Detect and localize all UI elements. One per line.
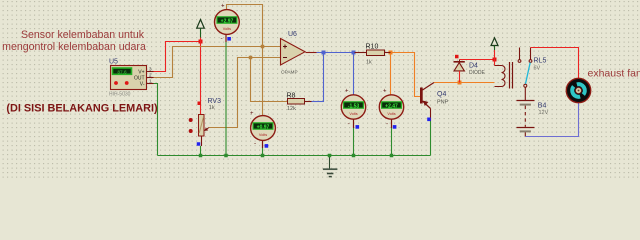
svg-text:U5: U5 <box>109 59 118 66</box>
svg-text:12k: 12k <box>287 106 296 112</box>
ground symbol <box>323 154 338 177</box>
relay RL5 arm <box>525 63 530 85</box>
relay RL5 pivot and pole <box>524 84 527 100</box>
node B junction <box>261 45 265 49</box>
wire voltmeter VM1 - to bus <box>224 35 228 158</box>
wire battery minus to fan bottom <box>525 103 578 137</box>
wire voltmeter VM5 - to bus <box>390 119 394 157</box>
diode D4 <box>454 60 486 83</box>
svg-text:+: + <box>221 4 225 10</box>
svg-text:Volts: Volts <box>259 133 267 137</box>
svg-text:-: - <box>254 140 256 147</box>
svg-text:+2.47: +2.47 <box>385 104 398 110</box>
power terminal +6V arrow <box>491 38 498 66</box>
label RL5 <box>534 58 547 72</box>
ground bus wire <box>158 155 431 157</box>
wire voltmeter VM3 - to bus <box>261 140 265 157</box>
svg-text:PNP: PNP <box>437 100 449 106</box>
wire node F to voltmeter VM5 + <box>390 53 392 96</box>
pin state square D4 <box>455 55 459 59</box>
wire voltmeter VM4 - to bus <box>352 119 356 157</box>
resistor R10 <box>355 44 391 66</box>
svg-text:+2.97: +2.97 <box>221 19 234 25</box>
voltmeter VM1 <box>215 4 240 42</box>
svg-text:R10: R10 <box>366 44 379 51</box>
battery B4 <box>517 101 535 137</box>
voltmeter VM4 <box>341 89 365 129</box>
svg-text:+: + <box>250 111 254 117</box>
wire node E to voltmeter VM4 + <box>353 53 355 96</box>
resistor R8 <box>287 93 312 113</box>
wire RV3 wiper to op-amp - input <box>209 58 281 128</box>
wire node A to RV3 top <box>200 42 202 115</box>
svg-text:-: - <box>348 121 350 128</box>
wire node D to R8 right <box>305 53 324 102</box>
svg-text:RL5: RL5 <box>534 58 547 65</box>
relay RL5 switch contacts <box>518 48 532 63</box>
wire U5 OUT to op-amp + input <box>153 47 281 78</box>
svg-text:+: + <box>345 89 349 95</box>
svg-text:D4: D4 <box>469 63 478 70</box>
voltmeter VM3 <box>250 111 275 148</box>
svg-text:+: + <box>383 89 387 95</box>
svg-text:B4: B4 <box>538 103 547 110</box>
wire node B to voltmeter VM3 + <box>262 47 264 117</box>
relay RL5 coil <box>495 62 513 89</box>
node E junction <box>352 51 356 55</box>
node A junction <box>199 40 203 44</box>
node C junction <box>249 56 253 60</box>
svg-text:V-: V- <box>140 82 145 88</box>
pin state square RV3 top <box>198 102 202 106</box>
wire Q4 emitter to bus <box>430 121 432 156</box>
wire RV3 bottom to bus <box>199 146 203 157</box>
svg-text:DIODE: DIODE <box>469 70 486 76</box>
potentiometer RV3 <box>189 98 221 146</box>
voltmeter VM5 <box>379 89 403 129</box>
svg-text:Volts: Volts <box>349 112 357 116</box>
op-amp U6 <box>281 31 306 74</box>
svg-text:6V: 6V <box>534 66 541 72</box>
svg-text:1k: 1k <box>366 60 372 66</box>
transistor Q4 <box>420 83 449 122</box>
svg-text:12V: 12V <box>539 110 549 116</box>
svg-text:exhaust fan: exhaust fan <box>588 68 640 80</box>
svg-text:Sensor kelembaban untuk: Sensor kelembaban untuk <box>21 29 145 41</box>
node F junction <box>389 51 393 55</box>
wire D4 cathode to relay coil top <box>460 59 495 61</box>
svg-text:-1.53: -1.53 <box>348 104 360 110</box>
svg-text:-: - <box>386 121 388 128</box>
wire op-amp output <box>306 52 362 54</box>
node D junction <box>322 51 326 55</box>
svg-text:-: - <box>221 35 223 42</box>
wire Q4 collector to relay coil <box>434 82 495 84</box>
sensor U5 HIH-5030 <box>109 59 154 98</box>
wire R10 right to Q4 base <box>391 53 421 97</box>
svg-text:87.6: 87.6 <box>117 70 127 76</box>
wire voltmeter VM1 + loop <box>227 5 263 47</box>
power terminal +5V arrow <box>197 20 205 42</box>
svg-text:HIH-5030: HIH-5030 <box>109 92 131 98</box>
label B4 <box>538 103 549 116</box>
svg-text:OPAMP: OPAMP <box>281 69 298 74</box>
node G junction D4 anode <box>458 81 462 85</box>
wire +5V U5 V+ to node A <box>153 42 201 72</box>
node H junction relay coil top <box>493 58 497 62</box>
svg-text:1k: 1k <box>209 105 215 111</box>
svg-text:Volts: Volts <box>387 112 395 116</box>
wire U5 V- to ground bus <box>147 84 158 156</box>
svg-text:mengontrol kelembaban udara: mengontrol kelembaban udara <box>2 41 146 53</box>
wire relay contact to fan top <box>531 48 579 79</box>
svg-text:Q4: Q4 <box>437 91 446 98</box>
svg-text:+0.97: +0.97 <box>257 125 270 131</box>
wire node C to R8 left <box>251 58 288 102</box>
motor exhaust fan <box>566 78 590 102</box>
svg-text:U6: U6 <box>288 31 297 38</box>
wire R8 right short blue <box>312 101 324 103</box>
svg-text:(DI SISI BELAKANG LEMARI): (DI SISI BELAKANG LEMARI) <box>6 103 158 115</box>
svg-text:Volts: Volts <box>223 27 231 31</box>
